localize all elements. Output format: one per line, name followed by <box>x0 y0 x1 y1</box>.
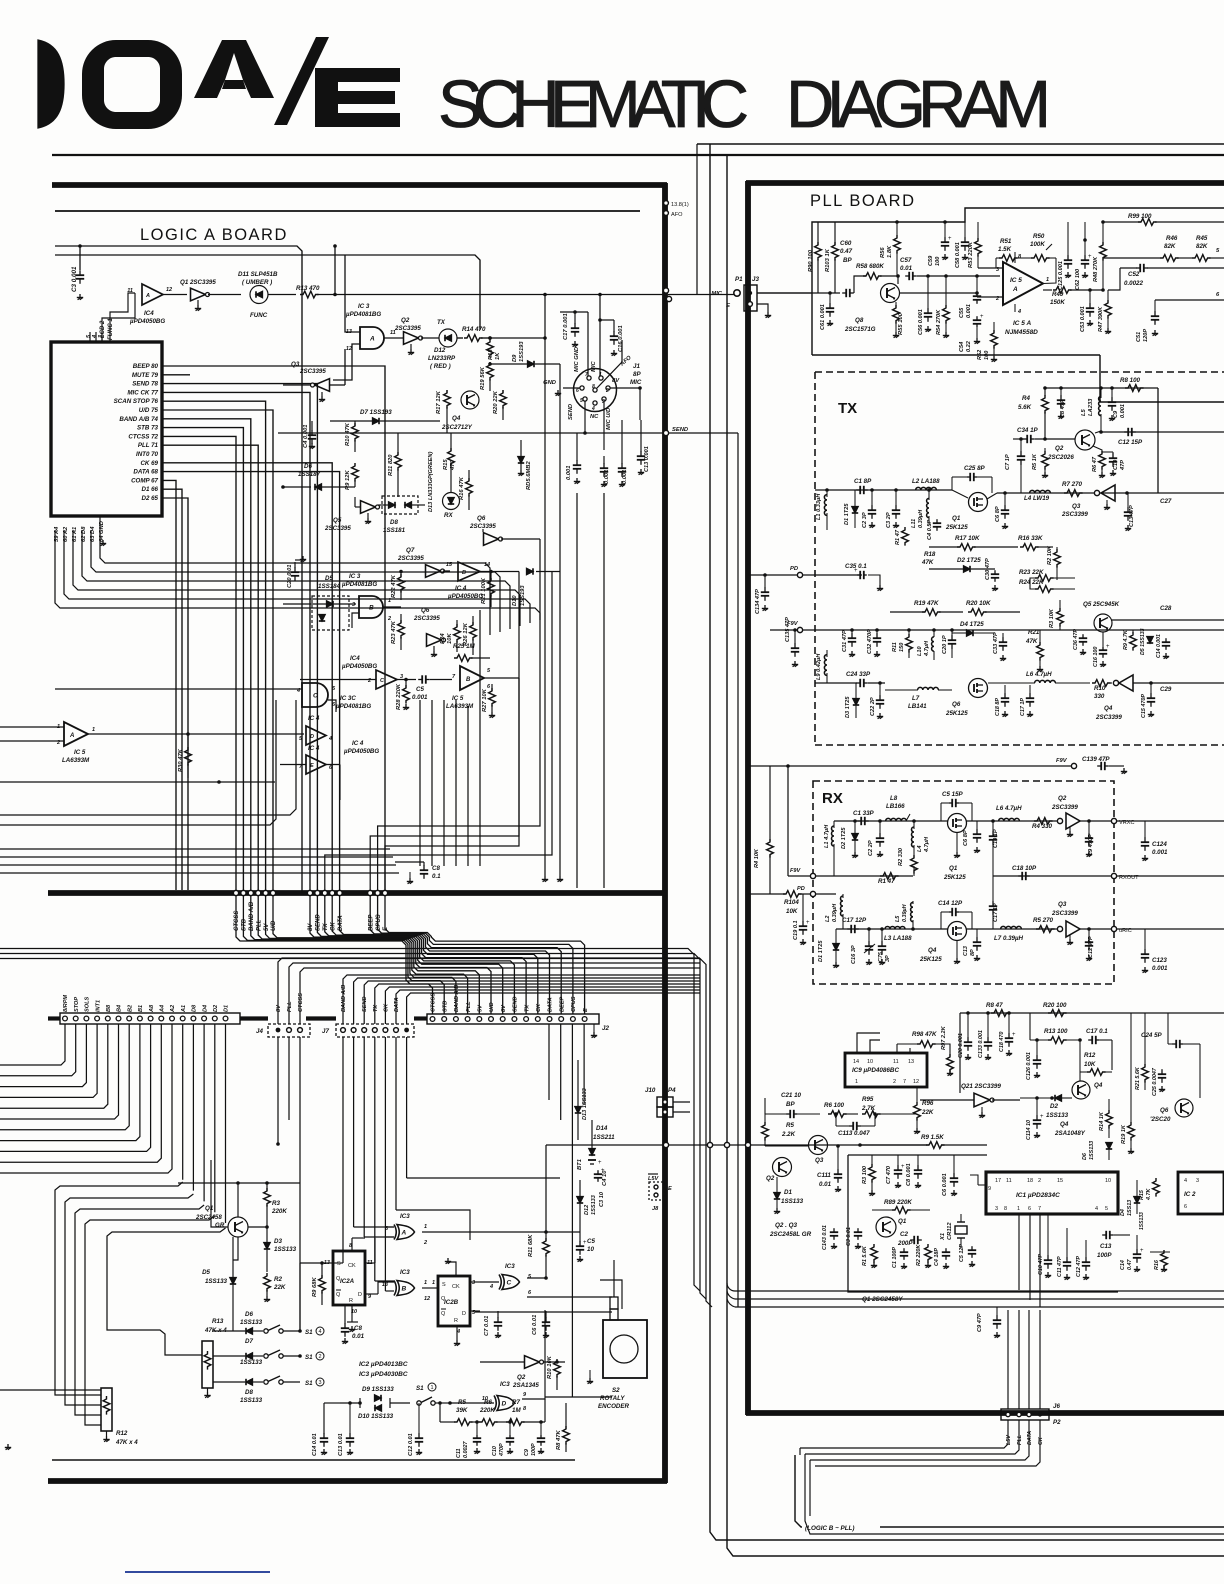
row2 J2 connector <box>427 1014 599 1024</box>
svg-text:C1 8P: C1 8P <box>854 478 872 485</box>
svg-text:15: 15 <box>1057 1178 1063 1184</box>
svg-text:R8 100: R8 100 <box>1120 377 1141 384</box>
svg-text:R9 4.7K: R9 4.7K <box>1123 629 1129 650</box>
svg-text:1SS133: 1SS133 <box>1046 1112 1069 1119</box>
svg-text:C3 2P: C3 2P <box>886 512 892 528</box>
capacitor C124 0.001 <box>1117 820 1224 822</box>
svg-text:150: 150 <box>899 642 905 652</box>
wire line y782 <box>0 781 275 783</box>
svg-text:SEND: SEND <box>362 996 368 1012</box>
svg-text:BEEP 80: BEEP 80 <box>133 363 159 370</box>
svg-text:0.001: 0.001 <box>1152 965 1168 972</box>
svg-text:R3 100: R3 100 <box>862 1165 868 1184</box>
svg-text:R23 47K: R23 47K <box>391 620 397 644</box>
wire J4 J7 feeds from right <box>278 958 700 1024</box>
flipflop IC2A <box>333 1251 365 1305</box>
svg-text:18: 18 <box>1027 1178 1033 1184</box>
svg-text:MIC: MIC <box>591 361 597 372</box>
svg-text:C53 0.001: C53 0.001 <box>1080 306 1086 332</box>
svg-text:2SA1345: 2SA1345 <box>512 1382 539 1389</box>
svg-text:R10 47K: R10 47K <box>345 422 351 446</box>
svg-text:4: 4 <box>1017 309 1021 315</box>
svg-text:13.8(1): 13.8(1) <box>671 202 689 208</box>
svg-text:R3 10K: R3 10K <box>1049 608 1055 628</box>
transistor Q4 bot <box>1072 1081 1090 1099</box>
svg-text:Q6: Q6 <box>952 701 961 708</box>
svg-text:R104: R104 <box>784 899 799 906</box>
svg-text:22K: 22K <box>273 1284 286 1291</box>
svg-text:LN233RP: LN233RP <box>428 355 456 362</box>
svg-text:LOGIC A BOARD: LOGIC A BOARD <box>140 226 288 244</box>
wire Q1 base bus <box>211 1160 228 1227</box>
tx dashed box <box>814 372 816 745</box>
svg-text:LB166: LB166 <box>886 803 905 810</box>
svg-text:R103 1K: R103 1K <box>825 248 831 272</box>
svg-text:TX: TX <box>437 319 446 326</box>
svg-text:D13 LN333GP(GREEN): D13 LN333GP(GREEN) <box>428 452 434 512</box>
svg-text:C9: C9 <box>524 1449 530 1456</box>
svg-text:2SA1048Y: 2SA1048Y <box>1054 1130 1086 1137</box>
svg-text:8V: 8V <box>308 923 314 931</box>
svg-text:Q3: Q3 <box>291 361 300 368</box>
svg-text:1SS133: 1SS133 <box>240 1359 263 1366</box>
svg-text:D6: D6 <box>1082 1152 1088 1160</box>
svg-text:R14 470: R14 470 <box>462 326 486 333</box>
svg-text:+: + <box>854 568 858 574</box>
svg-text:SEND 78: SEND 78 <box>132 381 158 388</box>
svg-text:LCD 2: LCD 2 <box>100 320 106 338</box>
svg-text:0.001: 0.001 <box>1120 404 1126 418</box>
svg-text:8/RPM: 8/RPM <box>63 995 69 1012</box>
transistor Q2 2SC2026 <box>1075 430 1095 450</box>
svg-text:U/D: U/D <box>271 920 277 931</box>
svg-text:S2: S2 <box>612 1387 620 1394</box>
svg-text:C6 0.01: C6 0.01 <box>532 1315 538 1335</box>
svg-text:MIC: MIC <box>630 379 642 386</box>
svg-text:6: 6 <box>1028 1206 1031 1212</box>
svg-text:Q2: Q2 <box>401 317 410 324</box>
svg-text:2SC3395: 2SC3395 <box>299 368 326 375</box>
svg-text:2.2K: 2.2K <box>781 1131 796 1138</box>
svg-text:120P: 120P <box>1143 329 1149 342</box>
wire mute stub <box>162 374 190 376</box>
svg-text:C32 470P: C32 470P <box>867 629 873 654</box>
svg-text:R7 270: R7 270 <box>1062 481 1083 488</box>
svg-text:Q8: Q8 <box>855 317 864 324</box>
svg-text:470P: 470P <box>499 1443 505 1457</box>
svg-text:B: B <box>402 1285 407 1292</box>
svg-text:2: 2 <box>387 616 391 622</box>
svg-text:6: 6 <box>576 388 579 394</box>
svg-text:C12 15P: C12 15P <box>1118 439 1143 446</box>
svg-text:R98 47K: R98 47K <box>912 1031 937 1038</box>
svg-text:D1 66: D1 66 <box>141 486 158 493</box>
svg-text:D12: D12 <box>584 1204 590 1215</box>
svg-text:R16 47K: R16 47K <box>459 476 465 500</box>
svg-text:R17 12K: R17 12K <box>436 390 442 414</box>
svg-text:Q2 . Q3: Q2 . Q3 <box>775 1222 798 1229</box>
svg-text:C135 47P: C135 47P <box>785 617 791 642</box>
svg-text:C10: C10 <box>1113 459 1119 470</box>
svg-text:14: 14 <box>853 1059 859 1065</box>
svg-text:C6 0.001: C6 0.001 <box>942 1173 948 1196</box>
svg-text:CTCSS: CTCSS <box>298 993 304 1012</box>
svg-text:2SC3395: 2SC3395 <box>324 525 351 532</box>
svg-text:C9 47P: C9 47P <box>977 1313 983 1332</box>
inverter Q2 2SA1345 <box>525 1356 540 1369</box>
svg-text:0.001: 0.001 <box>412 694 428 701</box>
svg-text:1: 1 <box>430 1385 433 1391</box>
svg-text:4.7µH: 4.7µH <box>924 836 930 853</box>
svg-text:C28: C28 <box>1160 605 1172 612</box>
svg-text:1.5K: 1.5K <box>998 246 1012 253</box>
svg-text:C124: C124 <box>1152 841 1167 848</box>
svg-text:+: + <box>1040 1114 1044 1120</box>
svg-text:1SS133: 1SS133 <box>1089 1141 1095 1160</box>
svg-text:TX: TX <box>323 922 329 931</box>
thin box around Q1 xtal <box>848 1155 1118 1292</box>
svg-text:A8: A8 <box>149 1004 155 1013</box>
wire tx top line <box>1045 387 1158 389</box>
svg-text:D5: D5 <box>202 1269 210 1276</box>
logic A right thick border <box>662 183 668 1483</box>
svg-text:CPUS: CPUS <box>571 996 577 1012</box>
svg-text:IC1 µPD2834C: IC1 µPD2834C <box>1016 1192 1060 1199</box>
svg-text:B8: B8 <box>106 1004 112 1012</box>
svg-text:+: + <box>1140 1248 1144 1254</box>
svg-text:R2 220K: R2 220K <box>916 1244 922 1266</box>
svg-text:IC3 µPD4030BC: IC3 µPD4030BC <box>359 1371 408 1378</box>
svg-text:MIC GND: MIC GND <box>574 346 580 372</box>
svg-text:C14 0.01: C14 0.01 <box>312 1433 318 1456</box>
svg-text:CR112: CR112 <box>947 1222 953 1240</box>
resistor R14 <box>457 337 463 339</box>
svg-text:39K: 39K <box>456 1407 468 1414</box>
ic IC9 uPD4066BC <box>845 1053 927 1087</box>
svg-text:1: 1 <box>432 1280 435 1286</box>
svg-text:Q3: Q3 <box>1058 901 1067 908</box>
svg-text:D14: D14 <box>596 1125 608 1132</box>
svg-text:L4 LW19: L4 LW19 <box>1024 495 1050 502</box>
logic B thin bottom line <box>52 1459 575 1461</box>
svg-text:+: + <box>806 920 810 926</box>
svg-text:D2 1T25: D2 1T25 <box>957 557 981 564</box>
wire bus down from J7 to logic B <box>342 1037 344 1263</box>
svg-text:+: + <box>948 236 952 242</box>
svg-text:25K125: 25K125 <box>919 956 942 963</box>
logic A thick top border <box>52 182 667 188</box>
svg-text:BAND A/B: BAND A/B <box>454 985 460 1012</box>
svg-text:1: 1 <box>1017 1206 1020 1212</box>
svg-text:4: 4 <box>1095 1206 1098 1212</box>
svg-text:R11 68K: R11 68K <box>528 1234 534 1257</box>
svg-text:F9V: F9V <box>1056 758 1068 764</box>
svg-text:R2 10K: R2 10K <box>1047 545 1053 565</box>
svg-text:D1: D1 <box>784 1189 792 1196</box>
svg-text:R1 5.6K: R1 5.6K <box>862 1245 868 1266</box>
svg-text:1K: 1K <box>495 352 501 360</box>
svg-text:SEND: SEND <box>568 403 574 420</box>
svg-text:A1: A1 <box>181 1005 187 1013</box>
svg-text:J4: J4 <box>256 1028 263 1035</box>
svg-text:L5: L5 <box>895 915 901 922</box>
logic A thin line under top <box>55 210 640 212</box>
wire bus cpu to row1 <box>162 366 385 890</box>
svg-text:Q5: Q5 <box>333 517 342 524</box>
svg-text:B1: B1 <box>138 1005 144 1012</box>
svg-text:IC4: IC4 <box>144 310 154 317</box>
svg-text:+: + <box>598 1160 602 1166</box>
svg-text:Q1: Q1 <box>205 1205 214 1212</box>
svg-text:R6 47: R6 47 <box>1092 456 1098 472</box>
svg-text:D: D <box>502 1400 507 1407</box>
svg-text:0.39µH: 0.39µH <box>832 903 838 922</box>
wire gate outputs hooks to row1 <box>378 539 540 890</box>
rotary encoder S2 <box>603 1320 647 1378</box>
wire mic gnd <box>563 387 580 389</box>
svg-text:12: 12 <box>424 1296 430 1302</box>
row2 thick segments <box>48 1016 60 1020</box>
svg-text:1SS211: 1SS211 <box>593 1134 615 1141</box>
svg-text:IC 2: IC 2 <box>1184 1191 1196 1198</box>
svg-text:R19 56K: R19 56K <box>480 366 486 390</box>
wires ic9 top <box>857 1033 880 1053</box>
svg-text:C125 0.001: C125 0.001 <box>1058 261 1064 290</box>
svg-text:RX: RX <box>444 512 453 519</box>
svg-text:C14 12P: C14 12P <box>938 900 963 907</box>
wire Q2 collector <box>1100 431 1102 432</box>
svg-text:R: R <box>349 1298 353 1304</box>
svg-text:2SC2458L GR: 2SC2458L GR <box>769 1231 812 1238</box>
svg-text:A: A <box>1012 286 1018 293</box>
svg-text:B: B <box>462 570 466 576</box>
svg-text:IC9 µPD4086BC: IC9 µPD4086BC <box>852 1067 899 1074</box>
svg-text:100P: 100P <box>531 1443 537 1456</box>
svg-text:Q2: Q2 <box>1058 795 1067 802</box>
resistor network R12 47Kx4 <box>101 1388 112 1431</box>
svg-text:µPD4081BG: µPD4081BG <box>335 703 371 710</box>
svg-text:INT1: INT1 <box>95 1000 101 1012</box>
svg-text:MIC: MIC <box>711 291 722 297</box>
svg-text:( RED ): ( RED ) <box>430 363 451 370</box>
svg-text:10: 10 <box>587 1246 594 1253</box>
svg-text:R20 10K: R20 10K <box>966 600 991 607</box>
svg-text:C4 0.001: C4 0.001 <box>303 424 309 448</box>
svg-text:1: 1 <box>92 727 95 733</box>
svg-text:C56 0.001: C56 0.001 <box>918 309 924 335</box>
svg-text:2SC2458: 2SC2458 <box>195 1214 222 1221</box>
svg-text:1SS133: 1SS133 <box>240 1397 263 1404</box>
svg-text:Q2: Q2 <box>766 1175 775 1182</box>
svg-text:8P: 8P <box>970 949 976 956</box>
wire gate area verticals <box>419 700 421 866</box>
svg-text:R9 68K: R9 68K <box>312 1277 318 1297</box>
svg-text:C6 8P: C6 8P <box>963 830 969 846</box>
svg-text:5: 5 <box>580 398 583 404</box>
svg-text:2SC3395: 2SC3395 <box>469 523 496 530</box>
svg-text:R47 390K: R47 390K <box>1098 306 1104 332</box>
diode D1 bot <box>774 1193 780 1200</box>
svg-text:D4 1T25: D4 1T25 <box>960 621 984 628</box>
svg-text:R50: R50 <box>1033 233 1045 240</box>
svg-text:C58 0.001: C58 0.001 <box>955 242 961 268</box>
svg-text:C134 47P: C134 47P <box>755 589 761 614</box>
svg-text:C2 2P: C2 2P <box>868 840 874 856</box>
svg-text:C133 0.001: C133 0.001 <box>978 1030 984 1058</box>
svg-text:Q5 25C945K: Q5 25C945K <box>1083 601 1120 608</box>
fet Q4 rx <box>948 922 967 941</box>
svg-text:C123: C123 <box>1152 957 1167 964</box>
svg-text:C25 0.0047: C25 0.0047 <box>1152 1067 1158 1096</box>
svg-text:µPD4081BG: µPD4081BG <box>345 311 381 318</box>
diode D3 1SS133 <box>264 1243 270 1250</box>
label 13.8 and AFO <box>664 201 669 206</box>
svg-text:2SC3395: 2SC3395 <box>413 615 440 622</box>
wire bus lines left mid <box>0 700 296 815</box>
svg-text:BAND A/B: BAND A/B <box>249 901 255 931</box>
svg-text:R4 10K: R4 10K <box>754 848 760 868</box>
svg-text:BP: BP <box>786 1101 795 1108</box>
svg-text:Q6: Q6 <box>1160 1107 1169 1114</box>
svg-text:C18 10P: C18 10P <box>1012 865 1037 872</box>
svg-text:IC2A: IC2A <box>340 1278 355 1285</box>
svg-text:IC3: IC3 <box>400 1269 410 1276</box>
svg-text:C7 0.01: C7 0.01 <box>484 1316 490 1336</box>
svg-text:D7: D7 <box>245 1338 253 1345</box>
svg-text:1SS133: 1SS133 <box>591 1194 597 1215</box>
svg-text:ROTALY: ROTALY <box>600 1395 625 1402</box>
svg-text:100: 100 <box>984 350 990 360</box>
svg-text:C60: C60 <box>840 240 852 247</box>
svg-text:220K: 220K <box>271 1208 287 1215</box>
ic IC1 uPD2834C <box>986 1172 1118 1214</box>
svg-text:J3: J3 <box>752 276 759 283</box>
svg-text:µPD4081BG: µPD4081BG <box>341 581 377 588</box>
svg-text:S1: S1 <box>305 1354 313 1361</box>
pll board thick border <box>745 181 751 1415</box>
transistor Q8 <box>881 284 900 303</box>
svg-text:L10: L10 <box>917 645 923 656</box>
cpu block IC <box>51 342 162 516</box>
svg-text:SEND: SEND <box>316 914 322 931</box>
svg-text:10: 10 <box>867 1059 873 1065</box>
wire rx top row <box>834 820 948 822</box>
svg-text:DIAGRAM: DIAGRAM <box>786 67 1052 142</box>
svg-text:1: 1 <box>424 1280 427 1286</box>
wire logic B to PLL bus <box>795 1455 1224 1527</box>
wire R9 line to logic B <box>546 1144 929 1146</box>
svg-text:R56: R56 <box>880 247 886 258</box>
wire hops on logic A border <box>665 1101 667 1103</box>
svg-text:D6: D6 <box>304 463 312 470</box>
svg-text:U/D 75: U/D 75 <box>139 407 159 414</box>
svg-text:25K125: 25K125 <box>945 710 968 717</box>
wires to J6 <box>1007 1310 1009 1409</box>
wire mic 8V <box>610 387 640 389</box>
svg-text:C31 47P: C31 47P <box>842 630 848 652</box>
wire top inner line 1 <box>55 246 302 893</box>
svg-text:0.39µH: 0.39µH <box>902 904 908 922</box>
svg-text:2: 2 <box>423 1240 427 1246</box>
diode pair D8 1SS181 dashed box <box>382 496 418 514</box>
svg-text:+: + <box>601 1168 605 1174</box>
svg-text:DATA: DATA <box>1027 1431 1033 1445</box>
svg-text:C3 10: C3 10 <box>599 1191 605 1207</box>
svg-text:R2: R2 <box>274 1276 282 1283</box>
svg-text:P4: P4 <box>668 1087 676 1094</box>
svg-text:R13 100: R13 100 <box>1044 1028 1068 1035</box>
svg-text:C8: C8 <box>432 865 440 872</box>
svg-text:R5 1K: R5 1K <box>1032 453 1038 470</box>
svg-text:8V: 8V <box>612 378 620 384</box>
svg-text:2SC3399: 2SC3399 <box>1095 714 1122 721</box>
svg-text:Q21 2SC3399: Q21 2SC3399 <box>961 1083 1001 1090</box>
svg-text:C36 47P: C36 47P <box>1073 629 1079 650</box>
svg-text:C126 0.001: C126 0.001 <box>1026 1052 1032 1080</box>
svg-text:IC 5: IC 5 <box>452 695 464 702</box>
svg-text:2SC3399: 2SC3399 <box>1051 804 1078 811</box>
svg-text:+: + <box>901 1164 905 1170</box>
svg-text:SCAN STOP 76: SCAN STOP 76 <box>114 398 159 405</box>
svg-text:1SS181: 1SS181 <box>383 527 406 534</box>
svg-text:7: 7 <box>585 372 588 378</box>
svg-text:C6 8P: C6 8P <box>995 506 1001 522</box>
svg-text:J7: J7 <box>322 1028 329 1035</box>
svg-text:F9V: F9V <box>790 868 802 874</box>
svg-text:D4: D4 <box>202 1004 208 1012</box>
wire D11 to R13 <box>268 294 296 296</box>
svg-text:SCHEMATIC: SCHEMATIC <box>438 67 750 142</box>
svg-text:D: D <box>358 1292 362 1298</box>
svg-text:PLL: PLL <box>256 919 262 931</box>
svg-text:Q4: Q4 <box>452 415 461 422</box>
svg-text:Q1: Q1 <box>949 865 958 872</box>
svg-text:C24 33P: C24 33P <box>846 671 871 678</box>
svg-text:R19 1K: R19 1K <box>1121 1124 1127 1144</box>
svg-text:BEEP: BEEP <box>368 914 374 931</box>
svg-text:L6 4.7µH: L6 4.7µH <box>996 805 1022 812</box>
svg-text:SOLS: SOLS <box>85 997 91 1012</box>
svg-text:PLL: PLL <box>466 1001 472 1012</box>
svg-text:C54: C54 <box>959 341 965 352</box>
svg-text:Q: Q <box>336 1292 341 1298</box>
svg-text:4.7K: 4.7K <box>1146 1188 1152 1201</box>
svg-text:D1 1T25: D1 1T25 <box>844 503 850 525</box>
svg-text:C18 470: C18 470 <box>999 1032 1005 1052</box>
svg-text:2SC3399: 2SC3399 <box>1051 910 1078 917</box>
title letter E <box>315 68 400 127</box>
svg-text:100K: 100K <box>1030 241 1045 248</box>
svg-text:100P: 100P <box>1097 1252 1112 1259</box>
wire bus row1 to J2 nest <box>236 896 433 1014</box>
svg-text:R89 220K: R89 220K <box>884 1199 912 1206</box>
svg-text:C22 2P: C22 2P <box>870 697 876 716</box>
svg-text:CTCSS: CTCSS <box>431 993 437 1012</box>
svg-text:0.01: 0.01 <box>352 1333 365 1340</box>
svg-text:2SC2026: 2SC2026 <box>1047 454 1074 461</box>
svg-text:FUNC: FUNC <box>250 312 268 319</box>
svg-text:STB: STB <box>242 918 248 931</box>
wire mic afo diagonal <box>597 340 622 388</box>
svg-text:D4: D4 <box>1120 1209 1126 1216</box>
svg-text:MIC CK 77: MIC CK 77 <box>127 389 158 396</box>
wire rxout right <box>1117 875 1224 877</box>
svg-text:C5 12P: C5 12P <box>959 1244 965 1262</box>
svg-text:2SC2712Y: 2SC2712Y <box>441 424 473 431</box>
svg-text:4.7µH: 4.7µH <box>924 640 930 657</box>
svg-text:CTCSS 72: CTCSS 72 <box>128 433 158 440</box>
svg-text:C113 0.047: C113 0.047 <box>838 1130 870 1137</box>
